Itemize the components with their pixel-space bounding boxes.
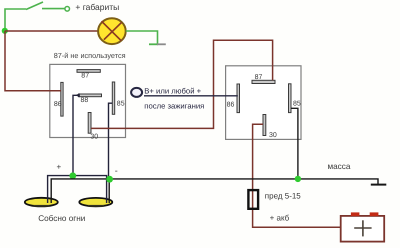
svg-text:пред 5-15: пред 5-15: [265, 192, 302, 201]
wire: pin 85 (right relay) down to massa bus: [291, 108, 298, 179]
svg-text:после зажигания: после зажигания: [144, 101, 204, 110]
svg-text:+ габариты: + габариты: [75, 2, 119, 12]
node A (green junction dot top-left): [2, 28, 8, 34]
wire: B+ to pin 86 of right relay (navy, under text): [144, 95, 238, 97]
wire: pin 88 down to lamps plus bus: [73, 95, 78, 175]
svg-text:+: +: [57, 162, 62, 171]
wire stub into lamp L1 (-): [50, 197, 52, 203]
svg-text:85: 85: [117, 100, 125, 107]
pin 30 (right relay, vertical bar): [263, 115, 266, 136]
wire: node down to relay pin 86 (dark red): [5, 31, 61, 91]
B+ terminal circle: [131, 88, 142, 97]
pin 86 (right relay, vertical bar): [237, 84, 240, 113]
massa bus wire: [51, 179, 378, 198]
battery terminal 2: [370, 212, 379, 216]
lamp HL1 (control lamp, yellow circle with X): [98, 18, 126, 44]
svg-text:масса: масса: [328, 162, 351, 171]
svg-text:87: 87: [255, 74, 263, 81]
ground (top, green/gray bar): [149, 43, 158, 45]
svg-text:87-й не используется: 87-й не используется: [54, 51, 126, 60]
node dot1 (green, pin88 wire to plus bus): [69, 172, 76, 179]
pin 88 (left relay, horizontal bar with arrow): [79, 94, 102, 97]
ground (massa bar right): [371, 184, 387, 186]
node dot2 (green): [106, 176, 113, 183]
relay K1 body (left relay): [50, 64, 126, 137]
svg-text:85: 85: [293, 100, 301, 107]
wire: node to lamp (dark red): [5, 30, 99, 32]
switch S1 blade: [26, 2, 43, 10]
wire stub into lamp L2 (-): [108, 198, 110, 204]
pin 85 (left relay, vertical bar): [112, 82, 114, 114]
wire: green lead from node up to switch: [5, 9, 26, 31]
battery GB1: [341, 216, 385, 242]
svg-text:86: 86: [227, 101, 235, 108]
wire: pin 30 (right relay) down to fuse and battery, dark red: [253, 124, 341, 227]
pin 85 (right relay, vertical bar): [289, 84, 292, 113]
wire stub into lamp L1 (+): [47, 197, 49, 203]
pin 87 (left relay, horizontal bar): [77, 70, 100, 73]
wire: red drop into pin 87 (right relay): [272, 65, 274, 80]
lamp L1 (left headlamp): [25, 198, 58, 207]
battery plus cross: [354, 227, 371, 229]
svg-text:30: 30: [269, 132, 277, 139]
pin 30 (left relay, vertical bar): [88, 113, 91, 134]
svg-text:88: 88: [81, 97, 89, 104]
svg-text:30: 30: [90, 133, 98, 140]
relay K2 body (right relay): [226, 66, 301, 140]
lamp L2 (right headlamp): [79, 198, 112, 206]
node dot3 (green): [295, 176, 301, 182]
wire: switch right lead: [42, 8, 65, 10]
svg-text:Собсно огни: Собсно огни: [38, 214, 85, 223]
plus bus to lamps: [48, 176, 107, 198]
battery terminal 1: [351, 212, 360, 216]
wire stub into lamp L2 (+): [106, 198, 108, 204]
lamp2 minus drop: [108, 179, 110, 198]
pin 87 (right relay, horizontal bar): [252, 80, 275, 83]
svg-text:86: 86: [54, 101, 62, 108]
pin 86 (left relay, vertical bar): [61, 82, 63, 116]
svg-text:В+ или любой +: В+ или любой +: [144, 86, 201, 95]
wire: pin 30 (left relay) to pin 87 (right relay), dark red: [91, 40, 273, 128]
svg-text:-: -: [115, 166, 118, 176]
wire: pin 85 (left relay) down to massa bus: [109, 103, 113, 179]
svg-text:+ акб: + акб: [270, 214, 290, 223]
wire: lamp to ground (green): [126, 31, 158, 44]
fuse F1: [248, 190, 258, 209]
switch terminal circle: [65, 7, 70, 12]
svg-text:87: 87: [81, 73, 89, 80]
